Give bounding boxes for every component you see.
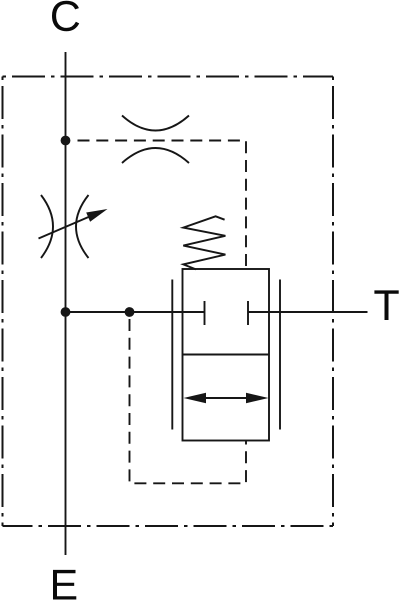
valve stroke rail left: [171, 280, 173, 430]
node junction pilot tap on work line: [125, 307, 135, 317]
enclosure dash-dot boundary left: [2, 77, 4, 527]
orifice on pilot line (upper arc): [122, 116, 189, 131]
node junction on C line (pilot tap): [61, 136, 71, 146]
wire pilot line (dashed) from node to compensator top: [78, 141, 247, 268]
wire pilot line (dashed) from work-line node to compensator bottom: [130, 319, 247, 483]
variable throttle valve (right arc): [76, 195, 89, 258]
valve stroke double arrow: [184, 393, 269, 404]
closed position symbol right blocked port: [247, 301, 249, 325]
closed position symbol left blocked port: [204, 301, 206, 325]
enclosure dash-dot boundary bottom: [3, 525, 334, 527]
valve stroke rail right: [279, 280, 281, 430]
spring of pressure compensator: [183, 216, 225, 269]
enclosure dash-dot boundary top: [3, 76, 334, 78]
wire main line C to E: [65, 52, 67, 555]
enclosure dash-dot boundary right: [332, 77, 334, 527]
port label C: [52, 1, 79, 31]
throttle adjustment arrow: [39, 209, 108, 239]
orifice on pilot line (lower arc): [122, 148, 189, 163]
pressure compensator valve envelope: [183, 269, 270, 441]
wire work line from compensator right port to T: [248, 311, 368, 313]
variable throttle valve (left arc): [41, 195, 53, 258]
pressure compensator cell divider: [183, 354, 270, 356]
wire work line from node to compensator left port: [66, 311, 205, 313]
node junction C line to work line: [61, 307, 71, 317]
port label T: [374, 290, 398, 320]
port label E: [53, 570, 76, 600]
